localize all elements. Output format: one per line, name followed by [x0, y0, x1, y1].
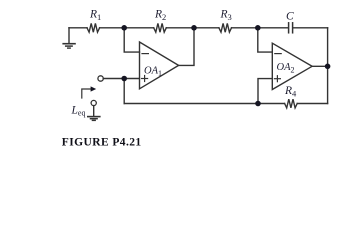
capacitor C	[289, 23, 293, 33]
OA1 plus pin	[142, 76, 148, 82]
svg-text:R2: R2	[154, 9, 166, 23]
wire node A to R2	[124, 27, 154, 29]
svg-text:Leq: Leq	[71, 105, 86, 118]
wire R3 to node C	[232, 27, 258, 29]
node C junction dot	[255, 25, 261, 31]
node A junction dot	[121, 25, 127, 31]
wire ground to R1	[69, 27, 87, 29]
lower terminal	[91, 100, 96, 105]
node E junction dot (bottom rail)	[255, 101, 261, 107]
node D junction dot (OA2 output)	[325, 64, 331, 70]
svg-text:C: C	[286, 11, 294, 23]
wire R1 to node A	[100, 27, 125, 29]
node B junction dot	[191, 25, 197, 31]
wire input terminal to OA1 plus input	[103, 78, 139, 80]
wire node B to R3	[194, 27, 219, 29]
resistor R2	[154, 23, 167, 32]
OA2 minus pin	[275, 53, 281, 55]
resistor R4	[285, 99, 298, 108]
Leq arrow	[82, 89, 91, 98]
svg-text:R4: R4	[284, 85, 297, 99]
op-amp OA2	[272, 43, 312, 89]
ground (lower)	[88, 117, 100, 121]
svg-text:FIGURE P4.21: FIGURE P4.21	[62, 136, 142, 148]
wire capacitor to right rail	[293, 27, 328, 29]
wire node F down to bottom rail	[123, 79, 125, 104]
resistor R1	[87, 23, 100, 32]
wire right rail lower segment	[327, 66, 329, 103]
wire right rail upper segment	[327, 28, 329, 67]
ground (top left)	[63, 28, 75, 48]
OA2 plus pin	[274, 76, 280, 82]
wire node A down to OA1 inverting input	[124, 28, 139, 52]
svg-text:R1: R1	[89, 9, 101, 23]
svg-text:OA1: OA1	[144, 66, 162, 79]
OA1 minus pin	[142, 53, 148, 55]
svg-text:OA2: OA2	[277, 62, 295, 75]
svg-text:R3: R3	[220, 9, 232, 23]
wire node C to capacitor	[258, 27, 289, 29]
Leq arrowhead	[91, 86, 97, 91]
input terminal (upper)	[98, 76, 103, 81]
wire OA2 output to node D	[312, 65, 328, 67]
wire node E up to OA2 plus input	[258, 79, 272, 104]
wire OA1 output to node B	[179, 28, 194, 66]
op-amp OA1	[140, 42, 179, 89]
node F junction dot (input)	[121, 76, 127, 82]
wire R2 to node B	[166, 27, 194, 29]
bottom rail wire left span	[124, 103, 258, 105]
resistor R3	[219, 23, 232, 32]
wire lower terminal to ground	[93, 106, 95, 117]
bottom rail wire right span	[258, 103, 328, 105]
wire node C down to OA2 inverting input	[258, 28, 273, 52]
